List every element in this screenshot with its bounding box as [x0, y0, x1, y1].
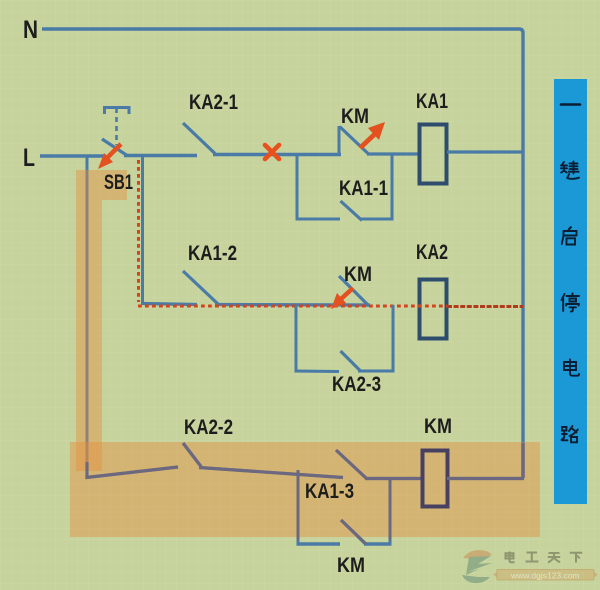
- wire right bus inside highlight slate redraw: [521, 443, 524, 478]
- highlight orange big rectangle: [70, 442, 540, 537]
- wire red dotted trace rung2: [138, 305, 447, 308]
- sidebar blue title bar: [554, 79, 587, 504]
- contact KA2-2 blade slate redraw: [183, 443, 201, 467]
- svg-text:SB1: SB1: [104, 171, 133, 194]
- svg-text:KA1: KA1: [416, 90, 448, 113]
- coil KM: [423, 451, 448, 507]
- wire rung1 to coil: [367, 152, 420, 155]
- watermark text 电工天下 drawn as strokes: [506, 552, 583, 563]
- wire rung3 to coil: [365, 477, 423, 480]
- highlight orange vertical band: [76, 170, 102, 471]
- wire red dotted vertical trace: [137, 160, 140, 302]
- wire rung2 feed vertical: [141, 156, 144, 305]
- wire KA2-3 branch left vertical: [295, 305, 298, 373]
- wire KM branch right vertical: [389, 480, 392, 545]
- coil KM slate redraw: [423, 451, 448, 507]
- watermark char 下: [570, 553, 582, 563]
- sidebar char 电: [564, 359, 579, 375]
- coil KA1: [420, 125, 447, 184]
- watermark char 电: [506, 552, 515, 563]
- contact KA1-3 blade slate redraw: [336, 450, 367, 479]
- watermark char 工: [526, 553, 539, 562]
- watermark logo swirl: [462, 550, 492, 583]
- contact KM rung1 stop bar: [338, 126, 341, 154]
- contact KM rung2 blade: [339, 276, 369, 306]
- wire KM branch right vertical slate redraw: [389, 480, 392, 540]
- svg-text:KA2-1: KA2-1: [189, 91, 238, 114]
- watermark char 天: [548, 553, 560, 563]
- sidebar char 启: [562, 227, 577, 244]
- wire rung3 to coil slate redraw: [365, 477, 423, 480]
- svg-text:L: L: [23, 144, 35, 172]
- arrow SB1 red actuate arrow: [98, 144, 121, 169]
- arrow KM rung1 red arrow: [360, 122, 385, 148]
- svg-text:www.dgjs123.com: www.dgjs123.com: [510, 571, 580, 581]
- contact KA2-2 blade: [183, 443, 201, 467]
- pushbutton SB1 actuator: [105, 108, 130, 146]
- wire rung1 mid segment: [213, 153, 341, 156]
- wire KA1-1 branch right vertical: [391, 154, 394, 220]
- wire KM branch left vertical: [297, 470, 300, 546]
- wire rung3 left segment: [86, 467, 179, 478]
- svg-text:KM: KM: [424, 415, 452, 438]
- contact KM bottom blade: [341, 520, 366, 545]
- svg-text:KM: KM: [341, 105, 369, 128]
- contact KA1-3 blade: [336, 450, 367, 479]
- svg-text:KA2-2: KA2-2: [184, 416, 233, 439]
- svg-text:KM: KM: [337, 554, 365, 577]
- wire KA2-3 branch bottom right: [358, 370, 395, 373]
- contact KM bottom blade slate redraw: [341, 520, 366, 544]
- wire KA1-1 branch left vertical: [296, 154, 299, 220]
- svg-text:KA2-3: KA2-3: [332, 373, 381, 396]
- wire KM branch bottom right: [364, 542, 392, 545]
- highlight orange band top widening: [102, 170, 127, 200]
- contact KA2-3 blade: [341, 351, 361, 371]
- wire coil KM to right bus slate redraw: [447, 477, 524, 480]
- wire rung3 left segment slate redraw: [87, 462, 178, 478]
- wire KA1-1 branch bottom right: [360, 218, 394, 221]
- contact KM rung1 blade: [340, 127, 369, 154]
- contact KA1-1 blade: [341, 201, 363, 221]
- sidebar char 键: [561, 162, 579, 179]
- pushbutton SB1 contact blade: [102, 139, 128, 156]
- wire red trace rung2 right dense: [447, 305, 523, 308]
- sidebar char 一: [561, 103, 580, 106]
- svg-text:N: N: [23, 16, 38, 44]
- wire rung2 mid segment: [215, 303, 370, 307]
- svg-text:KA1-2: KA1-2: [188, 242, 237, 265]
- svg-text:KA2: KA2: [416, 241, 448, 264]
- wire coil KA1 to right bus: [447, 150, 523, 153]
- wire rung2 left segment: [143, 304, 198, 305]
- wire N line and right bus: [42, 29, 523, 478]
- svg-text:KA1-3: KA1-3: [305, 480, 354, 503]
- wire KA2-3 branch right vertical: [392, 305, 395, 373]
- wire KM branch bottom left: [297, 542, 341, 545]
- svg-text:KA1-1: KA1-1: [339, 177, 388, 200]
- svg-text:KM: KM: [344, 263, 372, 286]
- wire KA1-1 branch bottom left: [296, 218, 341, 221]
- wire KA2-3 branch bottom left: [295, 370, 340, 374]
- wire rung3 mid segment slate redraw: [199, 468, 343, 478]
- wire L segment left: [40, 154, 106, 157]
- wire left bus vertical: [86, 156, 89, 475]
- sidebar char 路: [562, 426, 578, 442]
- watermark banner www.dgjs123.com: [493, 570, 598, 581]
- arrow KM rung2 red arrow: [331, 288, 353, 309]
- sidebar char 停: [562, 293, 580, 311]
- sidebar characters drawn as strokes: [561, 105, 580, 443]
- wire KM branch left vertical slate redraw: [297, 470, 300, 540]
- contact KA2-1 blade: [183, 123, 215, 154]
- marker red X: [265, 145, 279, 159]
- wire rung3 mid segment: [199, 468, 343, 478]
- contact KA1-2 blade: [183, 271, 218, 304]
- wire coil KM to right bus: [447, 477, 524, 480]
- coil KA2: [420, 280, 447, 339]
- wire L segment after SB1: [124, 154, 197, 157]
